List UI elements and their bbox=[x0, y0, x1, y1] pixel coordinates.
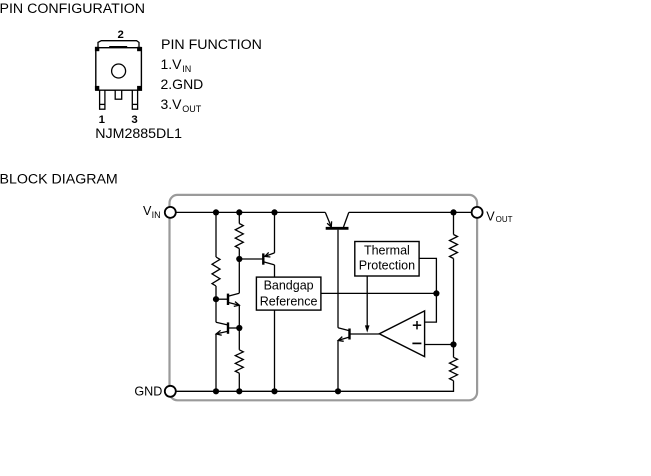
pin 3 function VOUT bbox=[161, 96, 202, 114]
svg-text:1: 1 bbox=[99, 114, 106, 126]
wire Bandgap output to error amp node bbox=[321, 292, 437, 294]
wire Thermal box output right bbox=[419, 258, 436, 293]
wire R1 to Q1 collector bbox=[215, 286, 217, 322]
wire Q1 emitter to GND rail bbox=[215, 334, 217, 392]
wire VOUT rail to R4 bbox=[453, 212, 455, 234]
junction VOUT rail / R4 bbox=[450, 209, 456, 215]
svg-text:PIN FUNCTION: PIN FUNCTION bbox=[161, 37, 262, 53]
svg-text:Thermal: Thermal bbox=[364, 243, 410, 257]
resistor R2 bbox=[235, 224, 243, 249]
wire feedback node to R5 bbox=[453, 345, 455, 358]
wire Thermal box bottom with arrow to Q4 base bbox=[366, 276, 368, 327]
wire Q1 base node to R3 bbox=[238, 328, 240, 350]
wire Q5 collector to Bandgap box bbox=[274, 265, 276, 277]
wire node to op-amp + input bbox=[425, 293, 437, 322]
transistor Q2 bbox=[228, 293, 239, 306]
svg-text:Bandgap: Bandgap bbox=[264, 279, 314, 293]
svg-text:3: 3 bbox=[131, 114, 137, 126]
package tab dark bar bbox=[109, 46, 127, 48]
wire bottom GND rail bbox=[176, 381, 454, 392]
wire R4 to feedback node bbox=[453, 259, 455, 345]
svg-text:Protection: Protection bbox=[359, 258, 415, 272]
junction GND rail / bandgap bbox=[271, 388, 277, 394]
junction branch A / Q2 base bbox=[213, 296, 219, 302]
resistor R4 bbox=[450, 235, 458, 259]
package center hole bbox=[112, 64, 126, 78]
junction GND rail / Q4 emitter bbox=[335, 388, 341, 394]
transistor Q3 pass PNP bbox=[325, 212, 349, 228]
transistor Q1 base wire bbox=[228, 327, 239, 329]
svg-text:IN: IN bbox=[152, 210, 161, 220]
pin 1 function VIN bbox=[161, 56, 192, 74]
terminal VIN bbox=[165, 207, 176, 218]
svg-text:1.V: 1.V bbox=[161, 56, 183, 72]
transistor Q4 bbox=[338, 328, 350, 342]
wire Q4 emitter to GND rail bbox=[337, 340, 339, 391]
svg-text:3.V: 3.V bbox=[161, 96, 183, 112]
Thermal Protection box bbox=[355, 242, 419, 277]
wire branch A upper (VIN rail to R1) bbox=[215, 212, 217, 257]
resistor R5 bbox=[450, 357, 458, 380]
svg-text:Reference: Reference bbox=[260, 295, 318, 309]
transistor Q1 bbox=[216, 322, 228, 335]
wire Q3 base to Q4 collector bbox=[337, 230, 339, 328]
label VOUT bbox=[486, 210, 512, 224]
svg-text:V: V bbox=[486, 210, 495, 224]
junction bandgap / thermal / op-amp + bbox=[433, 290, 439, 296]
wire top rail VIN to pass transistor bbox=[176, 211, 325, 213]
wire R2 to Q2 collector bbox=[238, 249, 240, 294]
svg-text:IN: IN bbox=[182, 64, 191, 74]
wire branch B upper (VIN rail to R2) bbox=[238, 212, 240, 223]
junction branch B / Q1 base bbox=[236, 325, 242, 331]
junction GND rail / R3 bbox=[236, 388, 242, 394]
wire Bandgap box to GND rail bbox=[274, 310, 276, 391]
terminal VOUT bbox=[472, 207, 483, 218]
wire R3 to GND rail bbox=[238, 373, 240, 391]
label VIN bbox=[143, 204, 161, 220]
transistor Q5 base wire bbox=[239, 258, 263, 260]
wire branch C (VIN rail to Q5 emitter) bbox=[274, 212, 276, 253]
junction GND rail / branch A bbox=[213, 388, 219, 394]
junction VIN rail / branch A bbox=[213, 209, 219, 215]
svg-text:2: 2 bbox=[118, 29, 124, 41]
resistor R3 bbox=[235, 350, 243, 373]
wire op-amp - input to feedback node bbox=[425, 344, 454, 346]
svg-text:BLOCK DIAGRAM: BLOCK DIAGRAM bbox=[0, 172, 118, 188]
svg-text:2.GND: 2.GND bbox=[161, 76, 204, 92]
resistor R1 bbox=[212, 257, 220, 286]
Bandgap Reference box bbox=[256, 277, 321, 310]
op-amp U1 error amplifier bbox=[379, 311, 424, 357]
junction branch B / Q5 base bbox=[236, 256, 242, 262]
svg-text:GND: GND bbox=[134, 385, 162, 399]
package body bbox=[95, 47, 142, 91]
svg-text:NJM2885DL1: NJM2885DL1 bbox=[95, 126, 182, 142]
package lead pin 1 bbox=[100, 90, 105, 109]
wire Q2 emitter to Q1 base node bbox=[238, 305, 240, 328]
package lead center (tab stub) bbox=[115, 90, 122, 99]
junction VIN rail / branch B bbox=[236, 209, 242, 215]
svg-text:OUT: OUT bbox=[496, 215, 513, 224]
transistor Q2 base wire bbox=[216, 298, 228, 300]
package tab (pin 2 tab outline) bbox=[98, 41, 139, 48]
transistor Q4 base wire to op-amp bbox=[350, 333, 380, 335]
package lead pin 3 bbox=[132, 90, 137, 109]
svg-text:OUT: OUT bbox=[182, 104, 202, 114]
terminal GND bbox=[165, 386, 176, 397]
svg-text:PIN CONFIGURATION: PIN CONFIGURATION bbox=[0, 1, 145, 17]
junction feedback divider / op-amp - bbox=[450, 341, 456, 347]
wire top rail pass transistor to VOUT bbox=[349, 211, 472, 213]
junction VIN rail / branch C bbox=[271, 209, 277, 215]
IC outline rounded border bbox=[170, 195, 478, 400]
transistor Q5 (PNP) bbox=[263, 252, 274, 265]
